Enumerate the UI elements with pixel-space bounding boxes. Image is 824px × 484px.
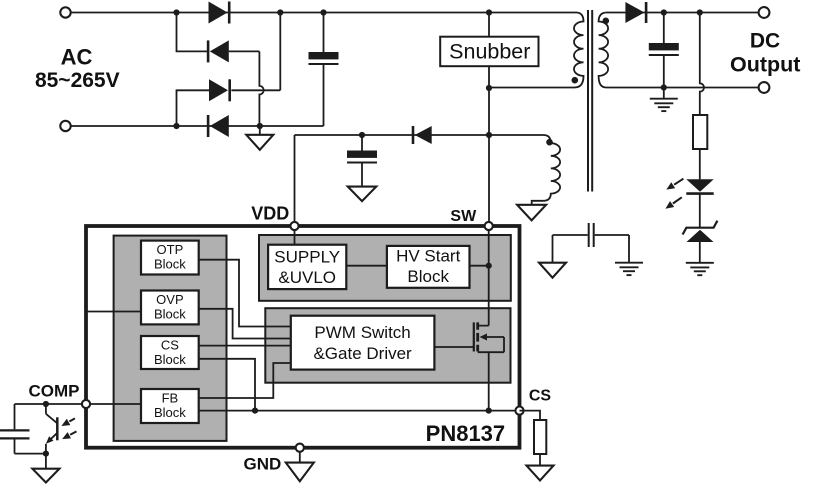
svg-text:&UVLO: &UVLO: [278, 268, 336, 287]
wire VDD pin to supply block: [294, 228, 296, 245]
svg-text:AC: AC: [61, 44, 93, 69]
pin SW: [485, 222, 493, 230]
AC line terminal (top): [60, 7, 70, 17]
wire R2 to ground: [539, 454, 541, 466]
capacitor COMP C4: [0, 430, 30, 438]
svg-text:Block: Block: [154, 257, 186, 272]
node top rail / bulk cap: [320, 9, 326, 15]
wire top rail to snubber: [488, 13, 490, 37]
bridge diode D3: [209, 79, 228, 101]
ground (output, earth style): [650, 98, 678, 100]
svg-text:Block: Block: [154, 352, 186, 367]
wire D3 cathode to top rail: [231, 13, 280, 91]
SUPPLY & UVLO block U6: [268, 245, 346, 289]
wire GND pin stub: [299, 452, 301, 463]
wire VDD cap bottom: [361, 163, 363, 187]
svg-text:DC: DC: [750, 30, 780, 53]
wire COMP cap top: [14, 404, 16, 429]
ground (COMP): [32, 469, 59, 483]
wire opto gnd stub: [45, 454, 47, 469]
wire CS to PWM: [199, 345, 291, 347]
pin GND: [296, 444, 304, 452]
DC output terminal (+): [759, 7, 770, 18]
wire mosfet source to CS: [488, 352, 490, 410]
diode VDD D5: [415, 126, 432, 144]
svg-text:&Gate Driver: &Gate Driver: [313, 344, 412, 363]
optocoupler LED: [686, 179, 713, 191]
secondary phase dot: [603, 18, 610, 25]
svg-text:HV Start: HV Start: [396, 247, 461, 266]
wire COMP cap bottom: [15, 439, 46, 453]
ground (zener, earth style): [686, 262, 714, 264]
wire feedback divider with hop: [700, 13, 704, 116]
wire CS lower to FB node: [199, 359, 255, 411]
bridge diode D1: [209, 2, 228, 24]
wire secondary gnd stub: [663, 88, 665, 99]
left function panel: [114, 236, 227, 441]
HV start block U7: [387, 246, 470, 288]
resistor R2 (current sense): [534, 420, 546, 454]
wire CS pin to R2: [520, 411, 541, 420]
node mosfet source / CS: [486, 408, 492, 414]
ground (VDD cap): [348, 187, 377, 202]
wire zener to ground: [699, 242, 701, 263]
svg-text:Block: Block: [154, 307, 186, 322]
wire D2 anode to DC- riser with hop: [229, 51, 264, 126]
node top rail / snubber: [486, 9, 492, 15]
node output divider: [697, 9, 703, 15]
ground (Y-cap secondary side): [615, 262, 643, 264]
wire secondary top rail: [606, 12, 759, 14]
pwm panel: [265, 308, 510, 383]
wire bulk cap top: [323, 13, 325, 53]
capacitor output C3: [649, 43, 679, 50]
wire FB node to CS pin: [199, 410, 520, 412]
wire OTP to PWM: [199, 260, 291, 327]
wire Y-cap left: [553, 235, 588, 263]
svg-text:OTP: OTP: [157, 242, 184, 257]
pin VDD: [290, 222, 298, 230]
svg-text:FB: FB: [162, 390, 179, 405]
svg-text:VDD: VDD: [251, 204, 289, 224]
supply panel: [259, 235, 511, 301]
wire bulk cap bottom: [323, 64, 325, 126]
node bottom rail / D3 branch: [173, 123, 179, 129]
node snubber / primary: [486, 85, 492, 91]
capacitor Y1: [589, 223, 594, 247]
svg-text:CS: CS: [161, 337, 179, 352]
resistor R1 (feedback): [693, 115, 707, 149]
wire output cap bottom: [663, 55, 665, 88]
OTP block U2: [141, 241, 199, 275]
output diode D6: [625, 2, 644, 23]
svg-text:SW: SW: [450, 208, 477, 225]
svg-text:CS: CS: [529, 388, 552, 405]
svg-text:Block: Block: [407, 267, 449, 286]
svg-text:PWM Switch: PWM Switch: [314, 323, 410, 342]
wire AC bottom rail: [71, 125, 324, 127]
opto light arrow 2: [70, 431, 76, 434]
wire COMP pin to FB block: [15, 403, 142, 405]
CS block U4: [141, 336, 199, 369]
wire VDD cap top: [361, 135, 363, 151]
svg-text:Block: Block: [154, 405, 186, 420]
pin COMP: [82, 400, 90, 408]
node SW / VDD-aux wire: [486, 132, 492, 138]
wire SW pin to mosfet drain: [479, 228, 489, 326]
PWM switch block U8: [291, 316, 435, 370]
LED light arrow 1: [674, 179, 683, 185]
ground (auxiliary winding): [517, 205, 546, 221]
node COMP / opto collector: [43, 401, 49, 407]
primary phase dot: [572, 77, 579, 84]
svg-text:SUPPLY: SUPPLY: [274, 247, 340, 266]
transformer auxiliary winding: [489, 135, 560, 205]
node top rail / D3 riser: [277, 9, 283, 15]
node DC- junction: [257, 123, 263, 129]
wire OVP block to left rail: [86, 311, 141, 313]
ground (bridge DC-): [246, 135, 273, 150]
bridge diode D2: [210, 40, 229, 62]
wire snubber to SW pin: [488, 66, 490, 224]
transformer secondary winding: [599, 13, 759, 88]
FB block U5: [141, 389, 199, 423]
svg-text:85~265V: 85~265V: [35, 69, 120, 92]
optocoupler transistor Q2: [46, 404, 57, 423]
bridge diode D4: [210, 115, 229, 137]
wire AC top rail: [71, 12, 577, 14]
wire OVP to PWM: [199, 309, 291, 339]
node HV start / SW: [486, 263, 492, 269]
svg-text:GND: GND: [244, 455, 282, 474]
wire DC- ground stub: [259, 126, 261, 135]
transformer primary winding: [489, 13, 584, 88]
svg-text:Output: Output: [730, 52, 800, 76]
wire supply to HV start: [346, 265, 387, 267]
opto light arrow 1: [69, 418, 75, 421]
node VDD cap tap: [359, 132, 365, 138]
svg-text:OVP: OVP: [156, 292, 183, 307]
ground (CS resistor): [527, 466, 554, 481]
wire FB upper to PWM: [199, 363, 291, 398]
svg-text:COMP: COMP: [29, 382, 80, 401]
transformer core: [588, 10, 592, 192]
wire Y-cap right: [595, 235, 629, 263]
svg-text:Snubber: Snubber: [449, 40, 530, 64]
DC output terminal (-): [759, 82, 770, 93]
wire R1 to LED: [699, 149, 701, 179]
wire output cap top: [663, 13, 665, 44]
mosfet Q1: [473, 322, 475, 351]
wire HV start to SW line: [470, 265, 489, 267]
LED light arrow 2: [673, 197, 682, 203]
svg-text:PN8137: PN8137: [426, 421, 506, 446]
node opto emitter / gnd: [43, 451, 49, 457]
node secondary return: [661, 84, 667, 90]
IC PN8137 outline: [86, 226, 520, 448]
wire LED to zener: [699, 194, 701, 228]
wire VDD riser to pin: [294, 135, 296, 224]
wire to diode D3: [177, 90, 210, 126]
auxiliary phase dot: [546, 139, 553, 146]
node FB / CS riser: [252, 408, 258, 414]
node top rail / D2 branch: [173, 9, 179, 15]
pin CS: [515, 407, 523, 415]
AC line terminal (bottom): [60, 121, 70, 131]
wire pwm to mosfet gate: [434, 346, 473, 348]
capacitor bulk C1: [309, 52, 339, 59]
wire VDD node: [295, 134, 490, 136]
wire to diode D2: [177, 13, 209, 52]
zener diode Z1: [683, 221, 718, 235]
ground (Y-cap primary side): [539, 263, 566, 278]
capacitor VDD C2: [347, 151, 377, 158]
snubber box: [440, 37, 538, 66]
OVP block U3: [141, 291, 199, 325]
ground (GND pin): [286, 463, 314, 482]
node output cap: [661, 9, 667, 15]
